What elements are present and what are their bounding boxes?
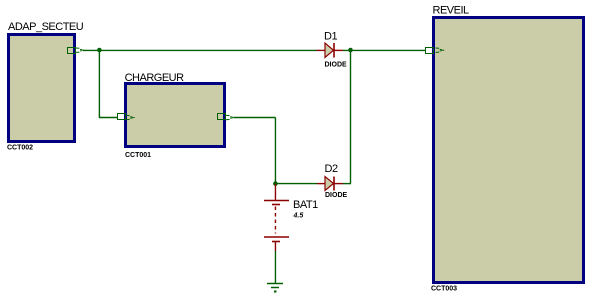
subcircuit box REVEIL bbox=[434, 18, 584, 283]
svg-text:CCT003: CCT003 bbox=[431, 286, 457, 293]
wire ADAP_SECTEU pin to D1 anode bbox=[83, 49, 317, 51]
svg-text:DIODE: DIODE bbox=[325, 192, 348, 199]
wire D1 cathode to REVEIL pin bbox=[343, 49, 426, 51]
junction node C bbox=[273, 181, 278, 186]
svg-text:D1: D1 bbox=[324, 31, 337, 43]
ground bbox=[267, 284, 283, 292]
pin square (ADAP_SECTEU output) bbox=[68, 48, 76, 54]
diode D1 bbox=[317, 43, 344, 58]
pin arrow (CHARGEUR output) bbox=[226, 115, 235, 119]
wire junction A down bbox=[98, 50, 100, 118]
pin square (CHARGEUR output) bbox=[218, 114, 226, 120]
wire battery bottom to ground bbox=[274, 251, 276, 284]
junction node A bbox=[97, 48, 102, 53]
subcircuit box CHARGEUR bbox=[126, 84, 225, 147]
pin arrow (REVEIL input) bbox=[436, 48, 445, 52]
svg-text:ADAP_SECTEU: ADAP_SECTEU bbox=[8, 21, 84, 33]
wire D2 up to top node bbox=[350, 50, 352, 183]
svg-text:CCT001: CCT001 bbox=[125, 152, 151, 159]
wire to CHARGEUR input bbox=[99, 117, 118, 119]
svg-text:CHARGEUR: CHARGEUR bbox=[125, 72, 185, 84]
wire CHARGEUR output right bbox=[234, 117, 276, 119]
battery BAT1 bbox=[264, 184, 289, 251]
wire D2 cathode stub bbox=[343, 183, 351, 185]
svg-text:DIODE: DIODE bbox=[325, 62, 348, 69]
junction node B bbox=[348, 48, 353, 53]
svg-text:REVEIL: REVEIL bbox=[433, 4, 470, 16]
svg-text:D2: D2 bbox=[325, 163, 338, 175]
svg-text:4.5: 4.5 bbox=[293, 213, 304, 220]
wire battery node to D2 anode bbox=[275, 183, 317, 185]
pin arrow (CHARGEUR input) bbox=[126, 115, 135, 119]
pin arrow (ADAP_SECTEU output) bbox=[76, 48, 85, 52]
subcircuit box ADAP_SECTEU bbox=[9, 35, 75, 142]
svg-text:BAT1: BAT1 bbox=[293, 199, 318, 211]
diode D2 bbox=[317, 177, 343, 191]
svg-text:CCT002: CCT002 bbox=[7, 145, 33, 152]
pin square (CHARGEUR input) bbox=[118, 114, 126, 120]
pin square (REVEIL input) bbox=[426, 48, 434, 54]
wire down to battery node bbox=[274, 118, 276, 185]
